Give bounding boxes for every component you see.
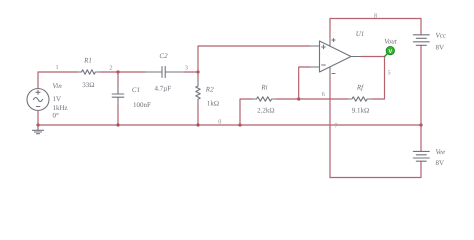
svg-text:2.2kΩ: 2.2kΩ bbox=[257, 107, 274, 115]
battery Vcc bbox=[413, 35, 429, 46]
svg-text:0°: 0° bbox=[53, 111, 60, 119]
junction source-ground bbox=[36, 123, 39, 126]
svg-text:Ri: Ri bbox=[260, 83, 267, 91]
ground bbox=[33, 130, 44, 133]
wire node6 up to op-amp - input bbox=[299, 67, 310, 99]
probe Vout bbox=[385, 46, 395, 56]
junction R2-rail bbox=[196, 123, 199, 126]
wire R1 to node 2 to C2 bbox=[100, 71, 146, 73]
wire top from source to R1 bbox=[38, 72, 78, 89]
svg-text:1kΩ: 1kΩ bbox=[207, 100, 219, 108]
wire op-amp VCC pin to Vcc battery bbox=[330, 19, 421, 37]
svg-text:100nF: 100nF bbox=[133, 101, 151, 109]
svg-text:V: V bbox=[388, 49, 392, 55]
svg-text:R2: R2 bbox=[205, 85, 214, 93]
svg-text:8V: 8V bbox=[436, 43, 445, 51]
junction C1-rail bbox=[116, 123, 119, 126]
wire node3 down to R2 bbox=[197, 72, 199, 81]
resistor Rf bbox=[348, 97, 372, 101]
wire Ri left leg bbox=[240, 99, 253, 125]
wire node2 down to C1 bbox=[117, 72, 119, 86]
svg-text:0: 0 bbox=[218, 118, 221, 125]
svg-text:1V: 1V bbox=[53, 95, 62, 103]
junction Ri-rail bbox=[238, 123, 241, 126]
wire op-amp VEE pin down around to Vee battery bbox=[330, 77, 421, 178]
node 2 junction bbox=[116, 70, 119, 73]
junction batteries-rail bbox=[419, 123, 422, 126]
wire rail to Vee battery bbox=[420, 125, 422, 151]
wire node 6 between Ri and Rf bbox=[276, 98, 348, 100]
resistor R2 bbox=[196, 81, 200, 104]
node 3 junction bbox=[196, 70, 199, 73]
capacitor C1 bbox=[112, 86, 124, 105]
svg-text:6: 6 bbox=[322, 91, 325, 98]
svg-text:Vin: Vin bbox=[53, 82, 63, 90]
svg-text:1: 1 bbox=[55, 64, 58, 71]
wire Rf right to output vertical bbox=[361, 57, 385, 100]
ground rail node 0 bbox=[38, 124, 421, 126]
svg-text:2: 2 bbox=[109, 64, 112, 71]
wire C2 to node 3 bbox=[184, 71, 198, 73]
svg-text:U1: U1 bbox=[356, 30, 365, 38]
battery Vee bbox=[413, 151, 429, 161]
AC source Vin bbox=[27, 89, 49, 111]
svg-text:Vcc: Vcc bbox=[436, 32, 447, 40]
resistor R1 bbox=[78, 70, 100, 74]
svg-text:33Ω: 33Ω bbox=[82, 81, 94, 89]
svg-text:Rf: Rf bbox=[356, 84, 364, 92]
wire source bottom to rail bbox=[37, 111, 39, 131]
svg-text:3: 3 bbox=[185, 64, 188, 71]
svg-text:C1: C1 bbox=[132, 86, 140, 94]
resistor Ri bbox=[253, 97, 276, 101]
wire Vcc battery to rail bbox=[420, 45, 422, 125]
svg-text:8V: 8V bbox=[436, 159, 445, 167]
wire R2 to ground rail bbox=[197, 104, 199, 125]
capacitor C2 bbox=[145, 67, 184, 78]
svg-text:9.1kΩ: 9.1kΩ bbox=[352, 107, 369, 115]
svg-text:5: 5 bbox=[387, 70, 390, 77]
op-amp U1 bbox=[310, 36, 362, 77]
svg-text:Vout: Vout bbox=[384, 38, 398, 46]
wire node3 up and right to op-amp + input bbox=[198, 46, 310, 72]
junction inverting input bbox=[297, 97, 300, 100]
svg-text:R1: R1 bbox=[83, 57, 92, 65]
svg-text:C2: C2 bbox=[159, 52, 168, 60]
svg-text:Vee: Vee bbox=[436, 148, 446, 156]
svg-text:8: 8 bbox=[374, 12, 377, 19]
svg-text:4.7µF: 4.7µF bbox=[154, 84, 171, 92]
svg-text:7: 7 bbox=[334, 122, 337, 129]
wire C1 to ground rail bbox=[117, 105, 119, 125]
